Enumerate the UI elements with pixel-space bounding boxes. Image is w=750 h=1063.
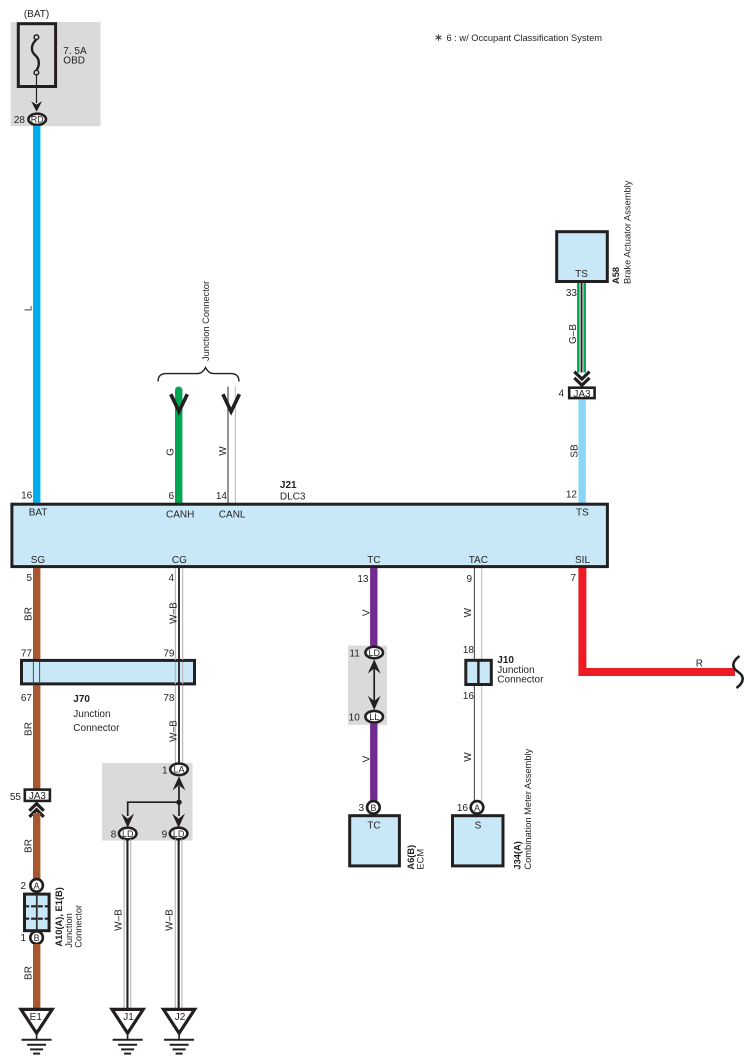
splice arrow LD to LL [368, 659, 381, 710]
pin 7 (SIL) [570, 573, 576, 584]
svg-text:B: B [370, 803, 376, 813]
svg-text:RD: RD [31, 115, 44, 125]
svg-text:11: 11 [349, 648, 360, 659]
connector chevron on CANL [223, 394, 240, 411]
label G [166, 448, 177, 456]
label Combination Meter Assembly [523, 748, 533, 869]
connector RD [28, 114, 46, 125]
wire W-B to J2 ground [175, 839, 182, 1009]
svg-text:BR: BR [24, 722, 35, 736]
svg-text:V: V [362, 609, 373, 616]
wire SB (sky blue) [578, 399, 585, 503]
svg-text:G: G [166, 448, 177, 456]
svg-text:6: 6 [168, 491, 174, 502]
connector A (circle) meter [471, 801, 484, 814]
svg-text:OBD: OBD [63, 56, 85, 67]
svg-text:BAT: BAT [29, 508, 48, 519]
svg-text:SIL: SIL [575, 555, 590, 566]
wire BR SG middle [33, 685, 40, 788]
svg-text:18: 18 [463, 645, 475, 656]
svg-text:J34(A): J34(A) [512, 841, 522, 869]
pin 55 [10, 792, 22, 803]
label W [218, 446, 229, 456]
pin 9 (TAC) [466, 574, 472, 585]
wire CANL white stub [228, 387, 235, 504]
label W-B [169, 602, 180, 624]
label W [463, 607, 474, 617]
connector arrow from JA3 (double chevron up) [29, 804, 43, 817]
svg-text:JA3: JA3 [29, 791, 46, 802]
svg-text:55: 55 [10, 792, 22, 803]
label Junction Connector (top brace) [201, 281, 211, 361]
svg-text:33: 33 [566, 288, 578, 299]
svg-text:CG: CG [172, 555, 187, 566]
label J10 Junction Connector [497, 655, 544, 685]
wire BR SG lower [33, 813, 40, 879]
svg-text:7: 7 [570, 573, 576, 584]
label A58 [611, 267, 621, 284]
svg-text:A6(B): A6(B) [406, 845, 416, 870]
pin 28 [14, 115, 26, 126]
junction connector A10(A) E1(B) grid [24, 894, 49, 931]
svg-text:79: 79 [163, 649, 175, 660]
svg-text:TS: TS [575, 269, 588, 280]
label J34(A) [512, 841, 522, 869]
connector LD (9) [170, 828, 188, 840]
pin 16 [21, 490, 33, 501]
svg-text:A: A [474, 803, 480, 813]
wire BR (brown) SG upper [33, 568, 40, 660]
fuse 7.5A OBD [18, 24, 87, 87]
wire L (blue) BAT feed [33, 126, 40, 503]
label W-B [114, 909, 125, 931]
svg-text:J2: J2 [175, 1012, 186, 1023]
svg-text:28: 28 [14, 115, 26, 126]
svg-text:Connector: Connector [497, 674, 544, 685]
svg-text:R: R [696, 659, 703, 670]
wire W-B CG lower [175, 685, 182, 763]
label G-B [568, 324, 579, 344]
svg-text:13: 13 [357, 574, 369, 585]
junction connector JA3 (left) [25, 790, 50, 803]
wire splice to LD9 [172, 802, 185, 828]
junction connector J70 [22, 660, 195, 684]
svg-text:1: 1 [20, 933, 26, 944]
ground J1 [112, 1009, 143, 1053]
svg-text:6 : w/ Occupant Classification: 6 : w/ Occupant Classification System [447, 33, 603, 43]
device A6(B) ECM [350, 816, 400, 866]
svg-text:W: W [218, 446, 229, 456]
svg-text:CANH: CANH [166, 510, 194, 521]
label W-B [165, 909, 176, 931]
wire W TAC upper [474, 568, 481, 659]
connector B (circle) [30, 931, 43, 944]
connector LA [170, 764, 188, 776]
wire R (red) SIL [582, 568, 735, 672]
ground E1 [21, 1009, 52, 1053]
label ECM [416, 849, 426, 870]
wire CANH green stub [175, 390, 182, 503]
svg-text:L: L [24, 305, 35, 311]
label BR [24, 607, 35, 621]
svg-text:SB: SB [570, 444, 581, 458]
wire W-B to J1 ground [124, 839, 131, 1009]
svg-text:Junction: Junction [64, 913, 74, 948]
wire G-B (green-black) [577, 283, 586, 373]
svg-text:5: 5 [26, 573, 32, 584]
svg-text:W: W [463, 607, 474, 617]
svg-text:LD: LD [368, 648, 380, 658]
label W [463, 752, 474, 762]
svg-text:JA3: JA3 [574, 389, 591, 400]
svg-text:E1: E1 [30, 1012, 43, 1023]
svg-text:LD: LD [173, 829, 185, 839]
svg-text:TC: TC [367, 555, 380, 566]
pin 8 [111, 829, 117, 840]
svg-text:4: 4 [168, 573, 174, 584]
brace over CANH/CANL junction wires [158, 368, 239, 382]
label V [362, 755, 373, 762]
svg-text:CANL: CANL [219, 510, 246, 521]
pin 16 (meter) [457, 803, 469, 814]
svg-text:S: S [475, 821, 482, 832]
shield gray box (LA/LD splice) [102, 763, 193, 841]
pin 9 [162, 829, 168, 840]
pin 13 [357, 574, 369, 585]
ground J2 [164, 1009, 195, 1053]
junction connector J10 [466, 660, 492, 684]
svg-text:67: 67 [21, 693, 33, 704]
pin 78 [163, 693, 175, 704]
svg-text:W–B: W–B [169, 602, 180, 624]
arrow up into LA [173, 776, 186, 802]
svg-text:A58: A58 [611, 267, 621, 284]
connector LL (10) [365, 711, 383, 723]
svg-text:(BAT): (BAT) [24, 9, 49, 20]
svg-text:Junction: Junction [73, 709, 110, 720]
wire V TC lower [370, 724, 377, 801]
svg-text:J70: J70 [73, 694, 90, 705]
svg-text:12: 12 [566, 490, 578, 501]
wire BR to E1 ground [33, 944, 40, 1009]
svg-text:Connector: Connector [73, 723, 120, 734]
svg-text:G–B: G–B [568, 324, 579, 344]
svg-text:B: B [34, 933, 40, 943]
label Brake Actuator Assembly [623, 180, 633, 284]
pin 3 [358, 803, 364, 814]
continuation squiggle [733, 656, 742, 688]
svg-text:16: 16 [21, 490, 33, 501]
svg-text:9: 9 [466, 574, 472, 585]
label V [362, 609, 373, 616]
svg-text:TC: TC [367, 821, 380, 832]
connector B (circle) ECM [367, 801, 380, 814]
svg-text:W–B: W–B [169, 720, 180, 742]
splice node dot [176, 800, 181, 805]
svg-text:J1: J1 [123, 1012, 134, 1023]
pin 18 [463, 645, 475, 656]
svg-text:3: 3 [358, 803, 364, 814]
svg-text:16: 16 [463, 691, 475, 702]
pin 12 [566, 490, 578, 501]
svg-text:DLC3: DLC3 [280, 492, 306, 503]
svg-text:16: 16 [457, 803, 469, 814]
svg-text:A10(A), E1(B): A10(A), E1(B) [54, 887, 64, 946]
svg-text:LD: LD [122, 829, 134, 839]
pin 11 [349, 648, 360, 659]
pin 4 [558, 389, 564, 400]
wire fuse to connector RD [31, 75, 42, 112]
shield gray box (LD/LL splice) [348, 646, 387, 725]
svg-text:A: A [34, 881, 40, 891]
svg-text:Connector: Connector [74, 905, 84, 948]
pin 6 [168, 491, 174, 502]
label R [696, 659, 703, 670]
svg-text:4: 4 [558, 389, 564, 400]
pin 1 [20, 933, 26, 944]
pin 10 [349, 712, 361, 723]
pin 77 [21, 649, 33, 660]
svg-text:V: V [362, 755, 373, 762]
label J21 DLC3 [280, 480, 306, 503]
fuse block gray background [11, 22, 101, 126]
connector LD (8) [119, 828, 137, 840]
svg-text:W–B: W–B [114, 909, 125, 931]
pin 5 [26, 573, 32, 584]
note: w/ Occupant Classification System [436, 33, 603, 43]
connector block J21 DLC3 [12, 504, 608, 566]
svg-text:TS: TS [576, 508, 589, 519]
pin 33 [566, 288, 578, 299]
svg-text:9: 9 [162, 829, 168, 840]
pin 2 [20, 881, 26, 892]
svg-text:14: 14 [216, 491, 228, 502]
svg-text:BR: BR [24, 966, 35, 980]
label BR [24, 839, 35, 853]
svg-text:Combination Meter Assembly: Combination Meter Assembly [523, 748, 533, 869]
label BR [24, 722, 35, 736]
label BR [24, 966, 35, 980]
label A6(B) [406, 845, 416, 870]
connector chevron on CANH [171, 394, 188, 411]
pin 14 [216, 491, 228, 502]
svg-text:LA: LA [173, 765, 184, 775]
device J34(A) Combination Meter Assembly [453, 816, 504, 866]
svg-text:1: 1 [162, 765, 168, 776]
label W-B [169, 720, 180, 742]
connector LD (11) [365, 647, 383, 659]
label A10(A), E1(B) Junction Connector [54, 887, 84, 948]
junction connector JA3 (right) [569, 388, 594, 400]
wire W TAC lower [474, 686, 481, 801]
svg-text:BR: BR [24, 607, 35, 621]
connector A (circle) [30, 879, 43, 892]
pin 67 [21, 693, 33, 704]
wire V (violet) TC upper [370, 568, 377, 647]
svg-text:Junction Connector: Junction Connector [201, 281, 211, 361]
pin 79 [163, 649, 175, 660]
wire W-B CG upper [175, 568, 182, 660]
svg-text:J21: J21 [280, 480, 297, 491]
svg-text:2: 2 [20, 881, 26, 892]
svg-text:SG: SG [31, 555, 46, 566]
svg-text:77: 77 [21, 649, 33, 660]
svg-text:10: 10 [349, 712, 361, 723]
svg-text:78: 78 [163, 693, 175, 704]
svg-text:BR: BR [24, 839, 35, 853]
svg-text:Brake Actuator Assembly: Brake Actuator Assembly [623, 180, 633, 284]
svg-text:LL: LL [369, 712, 379, 722]
svg-text:W–B: W–B [165, 909, 176, 931]
svg-text:8: 8 [111, 829, 117, 840]
pin 1 (LA) [162, 765, 168, 776]
svg-text:TAC: TAC [469, 555, 488, 566]
label SB [570, 444, 581, 458]
connector arrow into JA3 (double chevron down) [574, 372, 589, 386]
label (BAT) [24, 9, 49, 20]
device A58 Brake Actuator Assembly [557, 232, 608, 282]
label J70 Junction Connector [73, 694, 120, 734]
pin 4 (CG) [168, 573, 174, 584]
svg-text:ECM: ECM [416, 849, 426, 870]
wire splice to LD8 [121, 802, 179, 828]
label L [24, 305, 35, 311]
svg-text:W: W [463, 752, 474, 762]
pin 16 (below J10) [463, 691, 475, 702]
